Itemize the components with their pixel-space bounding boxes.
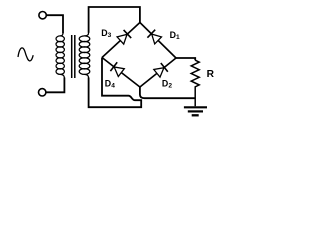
transformer T1 secondary winding bbox=[79, 33, 90, 78]
wire (bridge diagonal L-B) bbox=[102, 58, 140, 88]
wire (left vertex down and under-hop to bottom-left loop) bbox=[89, 58, 142, 108]
transformer T1 primary winding bbox=[56, 33, 64, 78]
svg-text:3: 3 bbox=[108, 32, 112, 39]
diode D4 (triangle and cathode bar) bbox=[110, 62, 124, 76]
diode D1 (triangle and cathode bar) bbox=[147, 30, 161, 44]
wire (bridge diagonal T-R) bbox=[140, 23, 176, 59]
svg-text:1: 1 bbox=[176, 34, 180, 41]
wire (bridge bottom vertex to ground rail) bbox=[140, 86, 195, 98]
terminal (bottom input) bbox=[39, 89, 46, 96]
diode D2 (triangle and cathode bar) bbox=[154, 63, 168, 77]
transformer T1 core lines bbox=[71, 35, 73, 78]
wire (bridge diagonal T-L) bbox=[102, 23, 140, 58]
wire (secondary top to bridge top node) bbox=[89, 7, 140, 33]
svg-text:D: D bbox=[162, 79, 168, 89]
wire (top terminal to transformer primary top) bbox=[46, 15, 63, 33]
svg-text:2: 2 bbox=[168, 83, 172, 90]
svg-text:4: 4 bbox=[111, 82, 115, 89]
ground symbol bbox=[184, 107, 207, 115]
resistor R (zigzag) bbox=[191, 60, 199, 106]
diode D3 (triangle and cathode bar) bbox=[117, 30, 131, 44]
svg-text:D: D bbox=[170, 30, 176, 40]
svg-text:D: D bbox=[105, 78, 111, 88]
wire (bottom terminal to transformer primary bottom) bbox=[46, 78, 65, 93]
AC source V1 (sine symbol) bbox=[18, 48, 33, 61]
terminal (top input) bbox=[39, 12, 46, 19]
wire (right vertex to resistor top) bbox=[176, 58, 195, 60]
wire (bridge diagonal B-R) bbox=[140, 58, 176, 87]
svg-text:D: D bbox=[101, 28, 107, 38]
svg-text:R: R bbox=[207, 69, 215, 80]
